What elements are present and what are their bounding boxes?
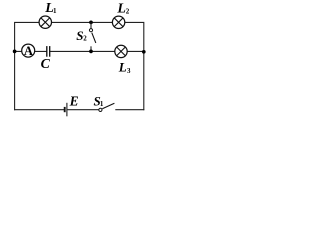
wire bottom-right segment — [115, 109, 144, 111]
svg-text:L: L — [116, 1, 126, 16]
svg-text:E: E — [69, 94, 79, 109]
switch S2 — [89, 22, 95, 51]
svg-text:2: 2 — [83, 35, 87, 43]
battery E — [65, 103, 67, 117]
wire middle-left segment (to capacitor) — [15, 50, 47, 52]
node left junction (middle wire / left wire) — [13, 50, 17, 54]
svg-text:C: C — [41, 56, 51, 71]
svg-text:2: 2 — [126, 8, 130, 16]
node right junction (middle wire / right wire) — [142, 50, 146, 54]
lamp L1 — [39, 16, 51, 28]
lamp L2 — [112, 16, 124, 28]
svg-text:L: L — [118, 59, 127, 74]
wire bottom-left segment — [14, 109, 64, 111]
svg-text:1: 1 — [53, 7, 57, 15]
lamp L3 — [115, 45, 127, 57]
node bottom junction of S2 — [89, 50, 93, 54]
switch S1 — [99, 103, 115, 111]
ammeter A — [22, 44, 35, 58]
wire bottom-mid segment (battery to switch S1) — [67, 109, 98, 111]
wire middle-right segment (capacitor to right) — [50, 50, 144, 52]
wire outer loop: left, top, right sides — [15, 22, 144, 110]
svg-text:1: 1 — [100, 100, 104, 108]
svg-text:A: A — [24, 44, 33, 58]
svg-text:3: 3 — [127, 67, 131, 75]
capacitor C — [47, 46, 50, 57]
node top junction of S2 — [89, 21, 93, 25]
